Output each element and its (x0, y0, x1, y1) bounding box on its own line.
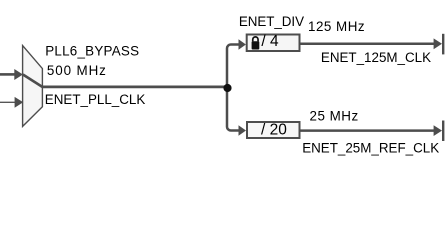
svg-text:ENET_25M_REF_CLK: ENET_25M_REF_CLK (302, 141, 439, 156)
svg-text:500 MHz: 500 MHz (47, 63, 107, 78)
svg-text:ENET_DIV: ENET_DIV (239, 14, 304, 29)
svg-text:ENET_125M_CLK: ENET_125M_CLK (321, 50, 431, 65)
svg-text:125 MHz: 125 MHz (308, 19, 365, 34)
svg-text:25 MHz: 25 MHz (310, 108, 359, 123)
svg-text:ENET_PLL_CLK: ENET_PLL_CLK (45, 92, 146, 107)
svg-text:/ 20: / 20 (261, 122, 287, 139)
svg-text:/ 4: / 4 (261, 33, 279, 50)
svg-text:PLL6_BYPASS: PLL6_BYPASS (45, 44, 139, 59)
